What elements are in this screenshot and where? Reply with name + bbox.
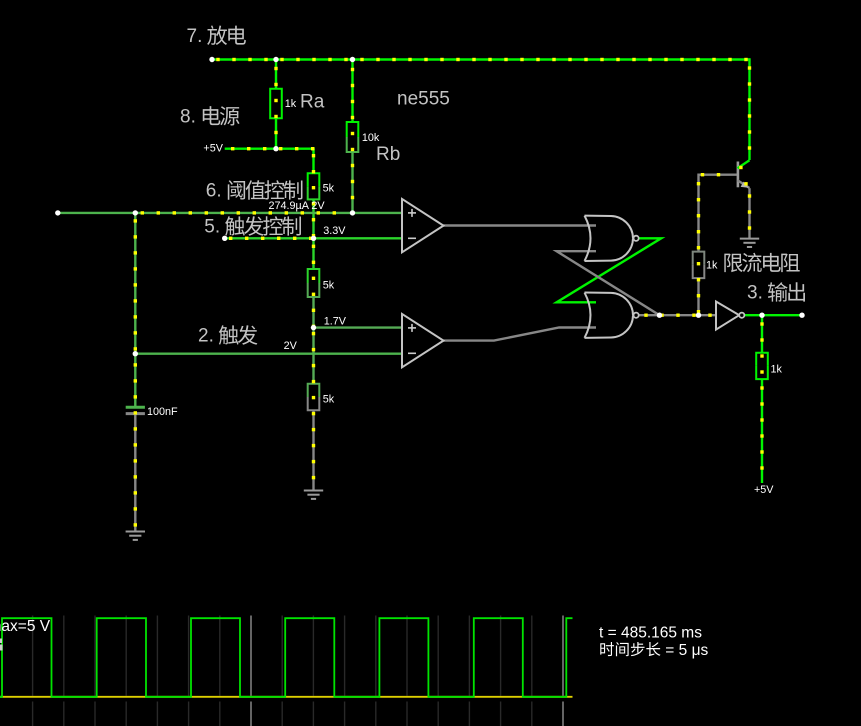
svg-text:+5V: +5V — [203, 143, 223, 155]
svg-text:1k: 1k — [706, 259, 718, 271]
svg-text:6.: 6. — [206, 181, 222, 202]
svg-text:+5V: +5V — [754, 484, 774, 496]
svg-text:ne555: ne555 — [397, 89, 450, 110]
svg-text:3.: 3. — [747, 283, 763, 304]
svg-text:max=5 V: max=5 V — [0, 618, 51, 635]
svg-text:5k: 5k — [323, 280, 335, 292]
svg-text:1k: 1k — [771, 363, 783, 375]
svg-text:Rb: Rb — [376, 144, 400, 165]
svg-text:1k: 1k — [285, 98, 297, 110]
svg-text:100nF: 100nF — [147, 406, 178, 418]
svg-text:5.: 5. — [204, 217, 220, 238]
svg-text:7.: 7. — [187, 26, 203, 47]
svg-text:5k: 5k — [323, 183, 335, 195]
svg-text:2.: 2. — [198, 326, 214, 347]
svg-text:2V: 2V — [284, 340, 298, 352]
svg-text:t = 485.165 ms: t = 485.165 ms — [599, 625, 702, 642]
svg-text:8.: 8. — [180, 106, 196, 127]
svg-text:1.7V: 1.7V — [324, 316, 347, 328]
svg-text:= 5 μs: = 5 μs — [665, 642, 708, 659]
svg-text:5k: 5k — [323, 394, 335, 406]
svg-text:274.9µA 2V: 274.9µA 2V — [269, 200, 326, 212]
svg-text:Ra: Ra — [300, 92, 325, 113]
svg-text:10k: 10k — [362, 132, 380, 144]
svg-text:3.3V: 3.3V — [323, 225, 346, 237]
